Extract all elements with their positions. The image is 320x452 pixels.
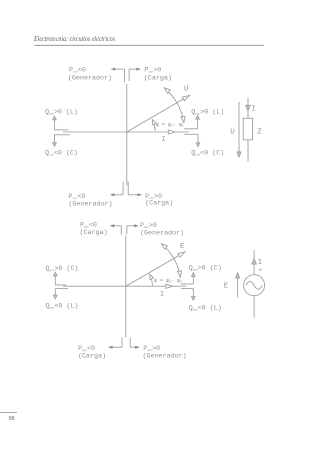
svg-text:U: U [184,86,188,94]
phasor U [127,99,185,133]
svg-text:I: I [160,291,164,299]
wire stub left-upper [55,129,69,131]
circuit 1: current arrowhead I [246,105,251,111]
svg-text:U: U [230,128,234,136]
arrow P right (bottom) d2 [130,346,139,348]
arrow Q up (right) d2 [192,276,194,284]
svg-text:I: I [162,136,166,144]
phasor E [126,255,180,286]
circuit 1: bottom wire [247,140,249,162]
sine wave [246,281,262,289]
wire stub top-left d2 [120,226,122,235]
arrow Q down (right) [197,134,199,143]
horizontal axis d2 [63,285,186,287]
wire stub left-lower [55,134,71,136]
arrow P right (bottom) [128,194,141,196]
svg-text:(Generador): (Generador) [68,200,112,208]
rotation arc double arrow [164,88,184,123]
arrow P left (bottom) [111,194,124,196]
svg-text:(Generador): (Generador) [68,74,112,82]
footer rule [0,412,17,414]
svg-text:E: E [180,243,185,251]
wire stub bottom-left d2 [121,338,123,348]
svg-text:(Carga): (Carga) [78,353,106,361]
svg-text:I: I [251,105,255,113]
svg-text:98: 98 [9,416,15,422]
svg-text:+: + [258,267,262,274]
svg-text:Qgen<0 (L): Qgen<0 (L) [189,305,222,313]
header rule [35,44,265,46]
arrow Q down (right) d2 [192,289,194,297]
svg-text:Qgen>0 (C): Qgen>0 (C) [46,265,79,273]
svg-text:Qcon>0 (L): Qcon>0 (L) [45,108,78,116]
phasor I [168,130,175,134]
wire stub left-upper d2 [55,284,66,286]
arrow P right (top) [129,68,140,70]
angle arc small [152,120,155,132]
wire stub top-right [128,69,130,81]
wire stub top-left [123,69,125,82]
arrow Q down (left) d2 [54,289,56,296]
svg-text:I: I [258,259,262,267]
voltage arrow U [238,102,240,153]
svg-text:φ = φu- φi: φ = φu- φi [156,122,184,128]
svg-text:Z: Z [257,128,262,136]
vertical axis [126,84,128,185]
arrow P left (top) d2 [110,225,121,227]
wire stub right-lower d2 [181,288,193,290]
wire stub bottom-right d2 [129,338,131,348]
svg-text:(Carga): (Carga) [145,199,173,207]
circuit 2: top wire [253,250,255,275]
svg-text:Qgen>0 (C): Qgen>0 (C) [189,265,222,273]
svg-text:(Generador): (Generador) [140,229,184,237]
arrow P left (top) [111,68,124,70]
angle arc small d2 [150,274,153,285]
svg-text:Qcon>0 (L): Qcon>0 (L) [191,108,224,116]
wire stub top-right d2 [126,226,128,235]
circuit 2: current arrowhead I [252,259,257,264]
svg-text:(Carga): (Carga) [80,229,108,237]
arrow Q up (left) [54,120,56,130]
svg-text:φ = φu- φi: φ = φu- φi [154,278,182,284]
circuit 1: top wire [247,98,249,119]
rotation arc double arrow d2 [161,244,180,277]
emf arrow E [237,277,239,298]
phasor I d2 [166,284,173,288]
svg-text:(Carga): (Carga) [144,74,172,82]
arrow P right (top) d2 [127,225,138,227]
impedance Z box [243,118,252,140]
vertical axis d2 [125,236,127,338]
wire stub right-upper [184,128,198,130]
svg-text:Qcon<0 (C): Qcon<0 (C) [191,150,224,158]
circuit 2: bottom wire [253,296,255,318]
source E circle [244,275,265,296]
wire stub bottom-left [122,182,124,195]
svg-text:Qcon<0 (C): Qcon<0 (C) [45,150,78,158]
svg-text:Electrotecnia: circuitos eléct: Electrotecnia: circuitos eléctricos [33,35,115,43]
arrow P left (bottom) d2 [109,346,122,348]
arrow Q up (left) d2 [54,276,56,285]
svg-text:Qgen<0 (L): Qgen<0 (L) [46,302,79,310]
svg-text:E: E [224,282,229,290]
wire stub bottom-right [127,182,129,195]
wire stub right-lower [184,133,198,135]
horizontal axis [63,131,189,133]
wire stub left-lower d2 [55,288,68,290]
arrow Q up (right) [197,119,199,129]
wire stub right-upper d2 [181,283,194,285]
svg-text:(Generador): (Generador) [143,353,187,361]
arrow Q down (left) [54,135,56,143]
